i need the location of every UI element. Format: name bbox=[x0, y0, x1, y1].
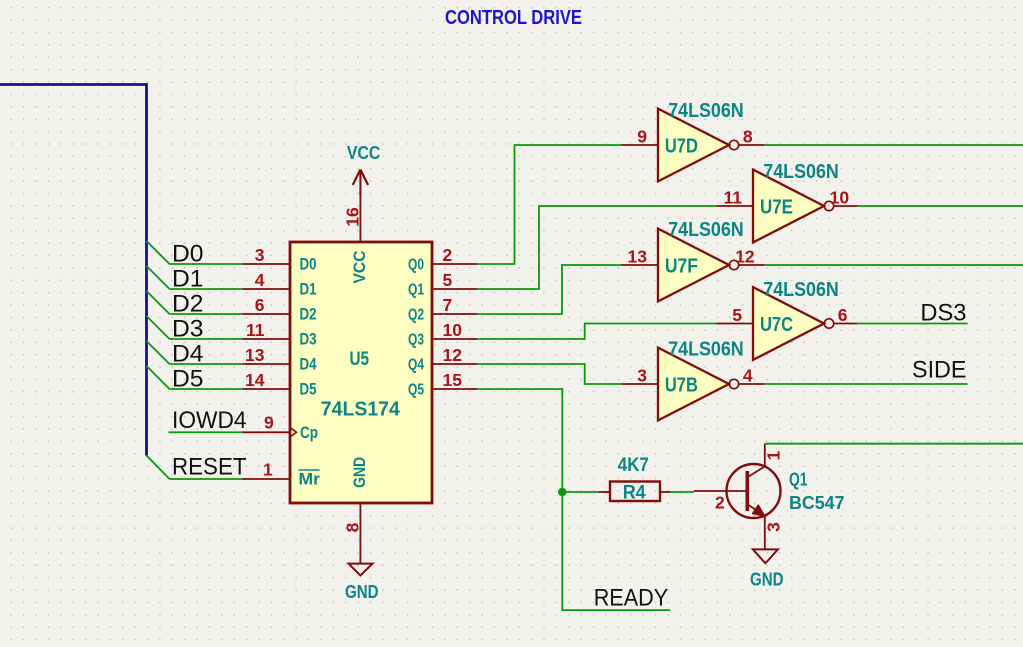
inverter U7C bbox=[717, 287, 858, 360]
svg-text:VCC: VCC bbox=[347, 143, 381, 163]
inverter U7D bbox=[622, 109, 765, 182]
svg-text:1: 1 bbox=[764, 451, 784, 461]
svg-text:2: 2 bbox=[715, 493, 725, 513]
wire Q1 collector bbox=[765, 443, 1023, 445]
svg-text:Q0: Q0 bbox=[408, 257, 424, 274]
wire U7B output SIDE bbox=[765, 383, 968, 385]
U5 pin 6 D2 bbox=[243, 313, 291, 315]
svg-text:74LS174: 74LS174 bbox=[321, 399, 401, 421]
svg-text:U7F: U7F bbox=[665, 255, 698, 278]
U5 pin 7 Q2 bbox=[432, 313, 477, 315]
wire Q1 to U7E input bbox=[477, 206, 717, 289]
svg-text:Q1: Q1 bbox=[408, 282, 424, 299]
inverter U7E bbox=[717, 170, 858, 243]
svg-text:4: 4 bbox=[743, 366, 753, 386]
svg-text:4: 4 bbox=[255, 270, 265, 290]
svg-text:D3: D3 bbox=[172, 316, 204, 343]
svg-text:GND: GND bbox=[750, 570, 784, 590]
svg-text:10: 10 bbox=[830, 188, 850, 208]
svg-text:D0: D0 bbox=[300, 256, 317, 274]
svg-text:Q4: Q4 bbox=[408, 357, 424, 374]
svg-text:DS3: DS3 bbox=[920, 299, 966, 326]
svg-text:Q2: Q2 bbox=[408, 307, 424, 324]
U5 pin 3 D0 bbox=[243, 263, 291, 265]
U5 pin 13 D4 bbox=[243, 363, 291, 365]
U5 pin 2 Q0 bbox=[432, 263, 477, 265]
svg-text:3: 3 bbox=[764, 522, 784, 532]
svg-text:BC547: BC547 bbox=[789, 493, 845, 513]
svg-text:GND: GND bbox=[350, 457, 369, 488]
U5 pin 8 GND bbox=[359, 503, 361, 564]
svg-text:9: 9 bbox=[637, 127, 647, 147]
svg-text:8: 8 bbox=[743, 127, 753, 147]
svg-text:74LS06N: 74LS06N bbox=[668, 99, 744, 122]
svg-text:VCC: VCC bbox=[350, 251, 369, 284]
svg-text:74LS06N: 74LS06N bbox=[668, 338, 744, 361]
svg-text:12: 12 bbox=[443, 345, 463, 365]
wire D1 bbox=[170, 288, 243, 290]
junction bbox=[558, 488, 567, 497]
transistor Q1 bbox=[694, 444, 781, 550]
wire RESET bbox=[170, 478, 243, 480]
wire D3 bbox=[170, 338, 243, 340]
wire D4 bbox=[170, 363, 243, 365]
svg-text:74LS06N: 74LS06N bbox=[763, 278, 839, 301]
svg-text:5: 5 bbox=[732, 305, 742, 325]
svg-text:Q5: Q5 bbox=[408, 382, 424, 399]
svg-text:74LS06N: 74LS06N bbox=[668, 218, 744, 241]
U5 pin 4 D1 bbox=[243, 288, 291, 290]
U5 pin 15 Q5 bbox=[432, 388, 477, 390]
svg-text:R4: R4 bbox=[623, 483, 646, 504]
U5 Mr overline bbox=[299, 469, 320, 471]
bus entry D2 bbox=[147, 291, 170, 314]
bus entry D0 bbox=[147, 241, 170, 264]
svg-text:74LS06N: 74LS06N bbox=[763, 160, 839, 183]
inverter U7B bbox=[622, 348, 765, 421]
GND symbol under Q1 bbox=[753, 549, 778, 563]
svg-text:13: 13 bbox=[628, 247, 648, 267]
wire U7D output bbox=[765, 144, 1023, 146]
wire Q3 to U7C input bbox=[477, 324, 717, 340]
inverter U7F bbox=[622, 229, 765, 302]
svg-text:READY: READY bbox=[594, 585, 669, 612]
U5 clock marker bbox=[290, 428, 297, 438]
bus entry RESET bbox=[147, 456, 170, 480]
svg-text:U7D: U7D bbox=[665, 135, 698, 158]
svg-text:D0: D0 bbox=[172, 241, 204, 268]
U5 pin 5 Q1 bbox=[432, 288, 477, 290]
svg-text:13: 13 bbox=[245, 345, 265, 365]
wire IOWD4 bbox=[169, 431, 243, 433]
wire Q0 to U7D input bbox=[477, 145, 622, 264]
svg-text:9: 9 bbox=[264, 413, 274, 433]
svg-text:2: 2 bbox=[443, 245, 453, 265]
wire Q4 to U7B input bbox=[477, 364, 622, 384]
wire D2 bbox=[170, 313, 243, 315]
U5 pin 9 Cp bbox=[243, 431, 291, 433]
svg-text:7: 7 bbox=[443, 295, 453, 315]
wire R4 to Q1 base bbox=[670, 491, 694, 493]
svg-text:Cp: Cp bbox=[300, 424, 318, 442]
svg-text:10: 10 bbox=[443, 320, 463, 340]
wire D5 bbox=[170, 388, 243, 390]
bus entry D5 bbox=[147, 366, 170, 389]
wire D0 bbox=[170, 263, 243, 265]
svg-text:D1: D1 bbox=[172, 266, 204, 293]
svg-text:3: 3 bbox=[255, 245, 265, 265]
wire Q2 to U7F input bbox=[477, 265, 622, 314]
U5 pin 11 D3 bbox=[243, 338, 291, 340]
svg-text:SIDE: SIDE bbox=[912, 357, 967, 384]
R4 pin 1 bbox=[599, 491, 611, 493]
svg-text:D4: D4 bbox=[172, 341, 204, 368]
bus entry D1 bbox=[147, 266, 170, 289]
svg-text:14: 14 bbox=[245, 370, 265, 390]
svg-text:D1: D1 bbox=[300, 281, 317, 299]
svg-text:Mr: Mr bbox=[299, 471, 321, 489]
svg-text:D2: D2 bbox=[300, 306, 317, 324]
svg-text:CONTROL DRIVE: CONTROL DRIVE bbox=[445, 6, 582, 29]
svg-text:Q1: Q1 bbox=[789, 469, 808, 489]
resistor R4 bbox=[610, 482, 660, 502]
bus entry D4 bbox=[147, 341, 170, 364]
U5 pin 1 Mr bbox=[243, 478, 291, 480]
wire junction to R4 bbox=[562, 491, 598, 493]
svg-text:6: 6 bbox=[838, 305, 848, 325]
wire U7C output DS3 bbox=[858, 323, 968, 325]
svg-text:1: 1 bbox=[263, 460, 273, 480]
svg-text:GND: GND bbox=[345, 582, 379, 602]
wire U7E output bbox=[858, 205, 1023, 207]
U5 pin 12 Q4 bbox=[432, 363, 477, 365]
svg-text:6: 6 bbox=[255, 295, 265, 315]
svg-text:11: 11 bbox=[724, 188, 743, 208]
wire Q5 down to READY bbox=[477, 389, 670, 610]
svg-text:D4: D4 bbox=[300, 356, 318, 374]
svg-text:15: 15 bbox=[443, 370, 463, 390]
svg-text:D5: D5 bbox=[172, 366, 204, 393]
svg-text:Q3: Q3 bbox=[408, 332, 424, 349]
GND symbol under U5 bbox=[349, 564, 373, 576]
svg-text:RESET: RESET bbox=[172, 454, 247, 481]
svg-text:D2: D2 bbox=[172, 291, 204, 318]
svg-text:U7B: U7B bbox=[665, 374, 698, 397]
svg-text:D5: D5 bbox=[300, 381, 317, 399]
svg-text:8: 8 bbox=[343, 522, 363, 532]
R4 pin 2 bbox=[660, 491, 670, 493]
U5 pin 14 D5 bbox=[243, 388, 291, 390]
svg-text:12: 12 bbox=[735, 247, 755, 267]
U5 pin 16 VCC bbox=[359, 170, 361, 243]
bus entry D3 bbox=[147, 316, 170, 339]
svg-text:D3: D3 bbox=[300, 331, 317, 349]
svg-text:U5: U5 bbox=[350, 349, 370, 370]
wire U7F output bbox=[765, 264, 1023, 266]
U5 pin 10 Q3 bbox=[432, 338, 477, 340]
svg-text:3: 3 bbox=[637, 366, 647, 386]
svg-text:U7C: U7C bbox=[760, 313, 793, 336]
svg-text:11: 11 bbox=[246, 320, 265, 340]
svg-text:IOWD4: IOWD4 bbox=[172, 407, 247, 434]
svg-text:U7E: U7E bbox=[760, 196, 793, 219]
IC U5 74LS174 body bbox=[290, 242, 432, 503]
svg-text:5: 5 bbox=[443, 270, 453, 290]
svg-text:4K7: 4K7 bbox=[618, 455, 649, 476]
VCC symbol bbox=[353, 170, 368, 196]
svg-text:16: 16 bbox=[343, 207, 363, 227]
bus bbox=[0, 85, 147, 456]
